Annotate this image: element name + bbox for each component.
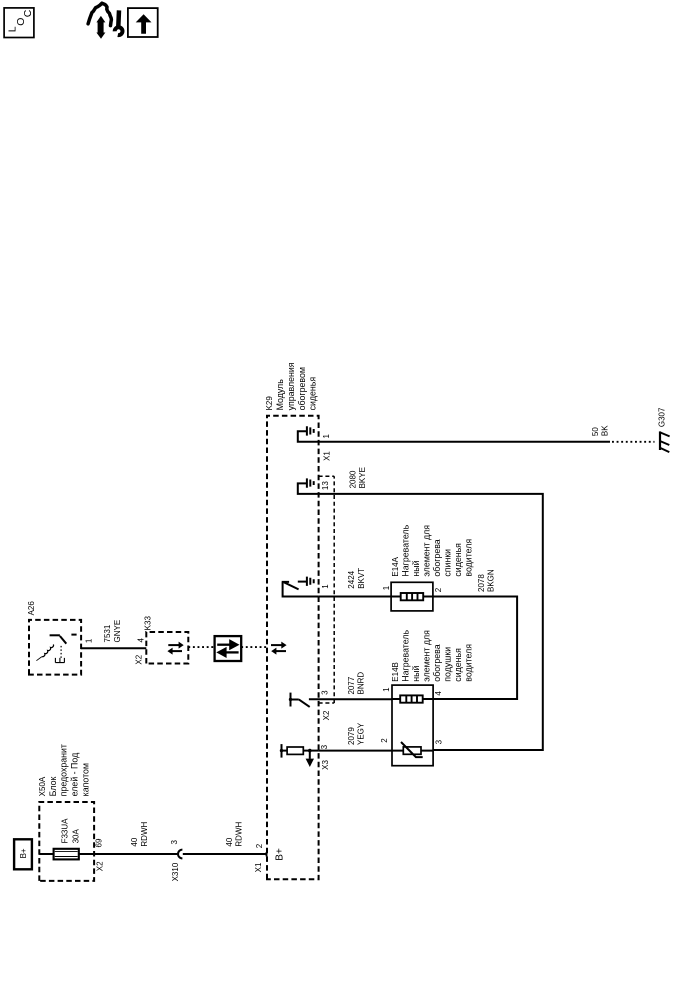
pin 3 / X3 labels [320,744,330,770]
pin 4 / X2 labels at K33 [135,638,146,665]
thermistor inside E14B [392,742,433,757]
E14B label [391,630,474,682]
module K29 (dashed box) [267,416,319,880]
svg-text:L: L [6,26,18,32]
internal ground (X2 pin 13) inside module [298,478,319,494]
wire label 2080 BKYE [348,467,367,488]
wire label 2078 BKGN [477,569,496,592]
svg-text:C: C [22,9,34,17]
wire 2079 YEGY [319,750,392,752]
module pin terminal tick [266,852,268,856]
up-arrow box [128,8,158,37]
wire 2077 BNRD [309,698,392,700]
battery terminal B+ [14,839,32,869]
internal switch to ground (X2 pin 1) inside module [282,577,319,597]
dotted serial data wire bus icon to module K29 [241,646,267,648]
wire 2080 BKYE (pin 13 to E14B pin 3) [319,494,543,750]
ignition switch internals [36,635,76,663]
wire label 7531 GNYE [103,620,122,643]
wire 50 BK to ground [319,441,610,443]
LOC corner box [4,8,34,38]
module K33 (dashed box) [146,632,188,664]
ignition switch A26 (dashed box) [29,620,81,675]
E14B pin labels 1,2,4,3 [380,687,443,745]
heater element E14A (driver seatback) [391,582,433,611]
module K29 label [265,362,318,410]
fuse block X50A (dashed box) [39,802,94,881]
wire B+ feed (40 RDWH) upper segment [39,853,177,855]
pin 1 / X1 labels [322,434,332,461]
internal switch (X2 pin 3) inside module [289,693,310,707]
serial data arrows inside K33 [167,642,183,655]
wire label 2077 BNRD [347,672,366,695]
E14A label [391,524,474,576]
wire 2078 BKGN (E14A pin 2 to E14B pin 4) [433,597,517,700]
svg-text:O: O [15,18,27,26]
wire label 2424 BKVT [347,568,366,589]
dotted wire to G307 [612,441,655,443]
wire label 40 RDWH (second) [225,821,244,846]
wire label 2079 YEGY [347,722,366,745]
wire 7531 GNYE [81,647,146,649]
E14A pin labels 1,2 [382,585,443,592]
wire label 40 RDWH (first) [130,821,149,846]
wire 40 RDWH lower segment to module [183,853,267,855]
wire label 50 BK [591,425,610,436]
fuse F33UA 30A [53,818,81,860]
internal ground (X1 pin 1) inside module [298,426,319,442]
connector X2 (dashed outline under module) [319,476,335,720]
ground G307 [657,407,669,452]
serial data arrows inside module K29 [271,642,287,655]
pin 69 / connector X2 labels at fuse block exit [95,838,105,871]
serial data bus icon box [215,636,242,661]
service/adjust hand icon [88,3,122,39]
splice connector X310 pin 3 [170,840,182,882]
heater element E14B (driver seat cushion) [392,685,433,766]
internal sensor circuit (X3 pin 3) inside module [280,744,319,767]
pin 2 / connector X1 labels at module entry [254,843,264,872]
wire 2424 BKVT [319,596,392,598]
dotted serial data wire K33 to bus icon [188,646,214,648]
fuse block label X50A [38,744,91,796]
